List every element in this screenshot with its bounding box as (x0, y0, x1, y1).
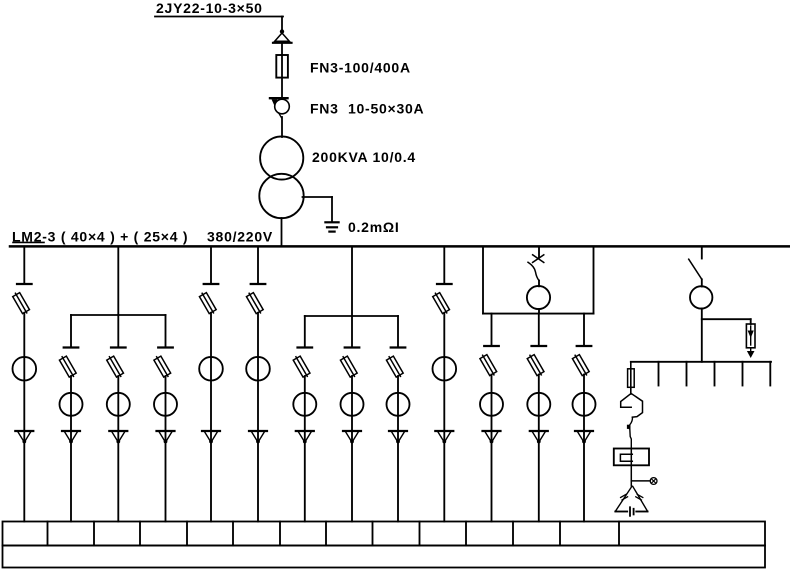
group A2 switch-fuse tick (111, 346, 126, 348)
box feeder C1 wire (491, 375, 493, 522)
comb outgoing circuit 3 (714, 362, 716, 386)
box feeder C3 wire (583, 375, 585, 522)
box feeder C1 drop wire (491, 314, 493, 346)
svg-text:FN3-100/400A: FN3-100/400A (310, 60, 411, 76)
group A1 drop wire (70, 315, 72, 347)
panel divider x=47.5 (47, 522, 49, 546)
panel divider x=233 (232, 522, 234, 546)
box feeder C1 meter circle (480, 393, 503, 416)
group B3 wire (397, 376, 399, 522)
arrester down arrow (750, 348, 752, 352)
box feeder C1 switch-fuse tick (484, 345, 499, 347)
comb outgoing circuit 4 (742, 362, 744, 386)
group A2 meter circle (107, 393, 130, 416)
connector squiggle (629, 417, 632, 428)
box feeder C2 switch-fuse tick (532, 345, 547, 347)
group A3 fuse body (153, 355, 171, 379)
group A1 wire (70, 376, 72, 522)
group B1 switch-fuse tick (298, 346, 313, 348)
group A3 switch-fuse tick (158, 346, 173, 348)
metering meter circle (527, 286, 550, 309)
wire (701, 279, 703, 286)
feeder F3 load arrow (249, 430, 267, 432)
transformer T1 primary winding (260, 136, 303, 179)
box feeder C3 meter circle (573, 393, 596, 416)
comb outgoing circuit 2 (686, 362, 688, 386)
group A2 fuse body (106, 355, 124, 379)
group A3 meter circle (154, 393, 177, 416)
comb outgoing circuit 5 (769, 362, 771, 386)
wire (281, 117, 283, 137)
svg-text:380/220V: 380/220V (207, 229, 273, 245)
group B1 drop wire (304, 316, 306, 347)
panel divider x=280 (279, 522, 281, 546)
panel divider x=94 (93, 522, 95, 546)
box feeder C3 fuse body (572, 353, 590, 377)
group B2 wire (351, 376, 353, 522)
wire main drop (281, 17, 283, 34)
panel divider x=187 (186, 522, 188, 546)
feeder F4 wire (443, 313, 445, 522)
feeder F2 meter circle (199, 357, 223, 381)
feeder F4 fuse body (432, 291, 450, 315)
svg-text:0.2mΩΙ: 0.2mΩΙ (348, 219, 400, 235)
earth electrode triangle (615, 486, 632, 511)
breaker QF wire (538, 248, 540, 258)
surge arrester FA (746, 324, 755, 348)
box feeder C1 fuse body (479, 353, 497, 377)
lighting feeder wire (701, 248, 703, 259)
group B stem wire (351, 248, 353, 316)
breaker QF cross contact (533, 255, 544, 263)
panel divider x=419.5 (419, 522, 421, 546)
panel divider x=619 (618, 522, 620, 546)
lighting isolator blade (689, 259, 702, 279)
distribution panel upper row (3, 522, 766, 546)
distribution panel lower row (3, 546, 766, 568)
feeder F4 switch-fuse tick (437, 283, 452, 285)
street light fuse body (628, 369, 635, 388)
ground symbol (325, 221, 338, 223)
feeder F4 wire (443, 248, 445, 284)
svg-text:200KVA 10/0.4: 200KVA 10/0.4 (312, 149, 416, 165)
box feeder C2 drop wire (538, 314, 540, 346)
lamp branch wire (631, 480, 650, 482)
group A branch bar (71, 314, 166, 316)
group B3 load arrow (389, 430, 407, 432)
photo switch symbol (621, 394, 632, 408)
wire through box (630, 449, 632, 487)
group A1 fuse body (59, 355, 77, 379)
feeder F4 meter circle (433, 357, 457, 381)
panel divider x=466 (465, 522, 467, 546)
metering wire (538, 309, 540, 314)
arrester branch wire (702, 318, 751, 320)
wire (281, 43, 283, 55)
breaker QF blade (528, 262, 539, 280)
box feeder C2 meter circle (527, 393, 550, 416)
cable terminal head (280, 29, 284, 33)
neutral tap wire (303, 196, 333, 198)
panel divider x=513 (512, 522, 514, 546)
group B1 fuse body (292, 355, 310, 379)
street lighting comb bus (631, 361, 771, 363)
metering box bottom bar (483, 313, 594, 315)
panel divider x=140 (139, 522, 141, 546)
street light fuse wire (630, 362, 632, 394)
group A2 drop wire (117, 315, 119, 347)
group B1 load arrow (296, 430, 314, 432)
group A3 drop wire (165, 315, 167, 347)
feeder F2 switch-fuse tick (204, 283, 219, 285)
lighting meter circle (690, 286, 712, 308)
wire (281, 78, 283, 98)
group B3 switch-fuse tick (391, 346, 406, 348)
group A1 meter circle (60, 393, 83, 416)
group B2 fuse body (340, 355, 358, 379)
busbar 380/220V (10, 245, 789, 248)
drop-out fuse cutout (270, 97, 288, 99)
feeder F1 wire (23, 313, 25, 522)
box feeder C3 switch-fuse tick (577, 345, 592, 347)
feeder F3 switch-fuse tick (251, 283, 266, 285)
group B1 wire (304, 376, 306, 522)
group B3 drop wire (397, 316, 399, 347)
feeder F2 wire (210, 313, 212, 522)
panel divider x=326 (325, 522, 327, 546)
group B branch bar (305, 315, 398, 317)
feeder F2 wire (210, 248, 212, 284)
box feeder C3 load arrow (575, 430, 593, 432)
metering box left side (482, 248, 484, 314)
group A2 wire (117, 376, 119, 522)
group B1 meter circle (293, 393, 316, 416)
group A3 wire (165, 376, 167, 522)
group A stem wire (117, 248, 119, 315)
metering box right side (593, 248, 595, 314)
incoming overhead line wire (155, 16, 283, 18)
busbar label LM2-3 underline artifact (13, 241, 44, 243)
box feeder C1 load arrow (483, 430, 501, 432)
box feeder C2 fuse body (526, 353, 544, 377)
group A2 load arrow (109, 430, 127, 432)
group B2 drop wire (351, 316, 353, 347)
group B2 meter circle (341, 393, 364, 416)
panel divider x=560 (559, 522, 561, 546)
box feeder C2 wire (538, 375, 540, 522)
box feeder C3 drop wire (583, 314, 585, 346)
group B3 fuse body (386, 355, 404, 379)
feeder F1 wire (23, 248, 25, 284)
group A1 load arrow (62, 430, 80, 432)
fuse FU1 body (276, 55, 288, 78)
svg-text:2JY22-10-3×50: 2JY22-10-3×50 (156, 0, 263, 16)
svg-text:LM2-3 ( 40×4 ) + ( 25×4 ): LM2-3 ( 40×4 ) + ( 25×4 ) (12, 229, 188, 245)
feeder F3 meter circle (246, 357, 270, 381)
feeder F3 wire (257, 248, 259, 284)
svg-text:FN3 10-50×30A: FN3 10-50×30A (310, 101, 424, 117)
earth electrode bars (629, 507, 631, 516)
breaker wire (538, 281, 540, 287)
feeder F1 fuse body (12, 291, 30, 315)
group B2 load arrow (343, 430, 361, 432)
group A3 load arrow (157, 430, 175, 432)
feeder F3 wire (257, 313, 259, 522)
feeder F3 fuse body (246, 291, 264, 315)
lamp symbol (650, 478, 657, 485)
wire transformer to bus (281, 218, 283, 246)
feeder F4 load arrow (435, 430, 453, 432)
transformer T1 secondary winding (259, 174, 303, 218)
group B2 switch-fuse tick (345, 346, 360, 348)
feeder F1 meter circle (12, 357, 36, 381)
panel divider x=372.5 (372, 522, 374, 546)
feeder F2 fuse body (199, 291, 217, 315)
group A1 switch-fuse tick (64, 346, 79, 348)
time switch box (614, 449, 649, 466)
triangle side tick marks (621, 494, 627, 497)
feeder F1 load arrow (15, 430, 33, 432)
feeder F1 switch-fuse tick (17, 283, 32, 285)
feeder F2 load arrow (202, 430, 220, 432)
group B3 meter circle (387, 393, 410, 416)
wire meter to comb bus (701, 309, 703, 362)
comb outgoing circuit 1 (658, 362, 660, 386)
box feeder C2 load arrow (530, 430, 548, 432)
